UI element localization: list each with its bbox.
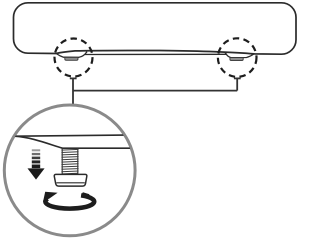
right leader vertical wire <box>236 78 238 90</box>
detail: front underside edge with recess curve <box>15 136 132 148</box>
rotation arrow head <box>43 192 58 202</box>
left leader tick <box>70 77 77 79</box>
press-down arrow striped shaft <box>32 149 40 151</box>
press-down arrow head <box>28 168 45 179</box>
detail foot rim line <box>56 182 84 184</box>
horizontal connector wire <box>73 90 237 92</box>
left foot recess outline <box>56 52 87 58</box>
left leader vertical wire <box>72 78 74 105</box>
right foot pad <box>230 58 243 61</box>
screw thread <box>61 149 78 175</box>
soundbar front bottom edge between feet <box>85 53 227 55</box>
detail: rear bottom edge chord <box>15 135 125 136</box>
left dashed callout circle <box>55 39 93 77</box>
soundbar body outline with rear bottom edge <box>14 3 297 54</box>
detail foot (leveling foot) <box>54 174 87 186</box>
rotation arrow band <box>45 195 94 208</box>
right dashed callout circle <box>218 38 257 77</box>
rotation arrow right taper tip <box>81 192 90 198</box>
right foot recess outline <box>225 52 254 58</box>
magnifier detail circle <box>4 105 135 236</box>
right leader tick <box>234 77 241 79</box>
left foot pad <box>65 57 78 60</box>
